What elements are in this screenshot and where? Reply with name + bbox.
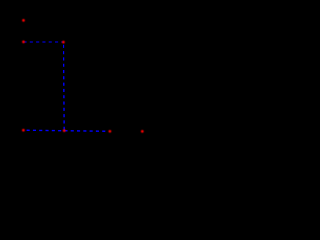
node F xyxy=(109,130,112,133)
node B xyxy=(22,41,25,44)
node G xyxy=(141,130,144,133)
node D xyxy=(63,129,66,132)
node C xyxy=(62,41,65,44)
node E xyxy=(22,129,25,132)
wire top dashed segment B-C xyxy=(24,41,64,43)
wire vertical dashed segment C-D xyxy=(62,42,65,131)
node A xyxy=(22,19,25,22)
wire bottom dashed segment E-F xyxy=(23,130,106,131)
